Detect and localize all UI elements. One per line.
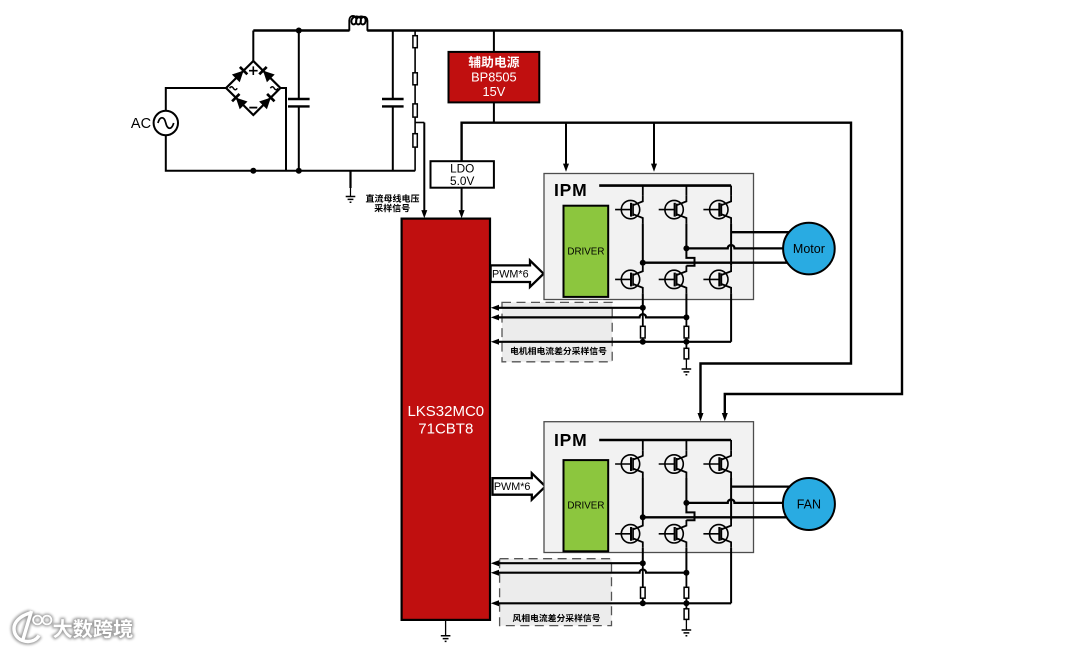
svg-text:PWM*6: PWM*6 (494, 481, 531, 493)
AC source V1 (131, 111, 178, 135)
node phase V (683, 245, 689, 251)
wire top rail to aux supply (493, 31, 495, 52)
transistor Q2 (659, 196, 687, 224)
svg-text:PWM*6: PWM*6 (492, 269, 529, 281)
transistor Q12 (659, 450, 687, 478)
wire 15V rail (462, 123, 851, 415)
capacitor C1 (298, 31, 300, 171)
shunt resistor R5 (642, 308, 644, 327)
ground symbol G3 (682, 369, 692, 375)
resistor divider chain R1-R4 (414, 31, 416, 171)
motor current sense common line (496, 341, 731, 343)
transistor Q3 (703, 196, 731, 224)
wire DC bus sense to MCU (423, 123, 425, 213)
LDO regulator U4 (431, 161, 494, 188)
wire top DC+ rail (253, 29, 902, 31)
transistor Q16 (703, 520, 731, 548)
svg-text:5.0V: 5.0V (450, 174, 474, 188)
PWM*6 block arrow to motor IPM (491, 261, 544, 287)
transistor Q15 (659, 520, 687, 548)
transistor Q5 (659, 266, 687, 294)
label fan phase current differential sampling signal (513, 614, 600, 622)
inductor L1 (349, 16, 367, 31)
wire AC bottom / DC- bottom rail (166, 135, 415, 171)
transistor Q1 (615, 196, 643, 224)
IPM module 1 (motor) (544, 174, 754, 300)
ground symbol G2 under MCU (445, 620, 447, 636)
svg-text:AC: AC (131, 116, 151, 132)
shunt resistor R6 (685, 317, 687, 326)
wire bridge + to top rail (252, 31, 254, 62)
wire aux supply to 15V rail (493, 102, 495, 122)
wire 2 col2 bottom (685, 548, 687, 573)
wire 1 col1 bottom (642, 293, 644, 307)
svg-text:BP8505: BP8505 (471, 70, 517, 85)
wire fan phase U (643, 516, 794, 518)
wire 1 col3 bottom (730, 293, 732, 341)
auxiliary power supply U3 BP8505 (449, 52, 540, 103)
svg-text:IPM: IPM (554, 430, 588, 450)
wire 2 col1 bottom (642, 548, 644, 563)
motor M1 (783, 223, 835, 275)
label DC bus voltage sampling signal (366, 194, 419, 212)
wire phase W to motor (731, 231, 794, 233)
wire bridge right leg down (280, 88, 286, 171)
wire 2 col3 bottom (730, 548, 732, 604)
wire 1 (motor) col3 top (730, 186, 732, 196)
resistor R10 to ground (685, 603, 687, 609)
IPM 1 (motor) positive bus (599, 184, 731, 187)
transistor Q14 (615, 520, 643, 548)
node phase U (640, 260, 646, 266)
node fan phase U (640, 514, 646, 520)
wire AC top to bridge (166, 88, 226, 111)
fan M2 (783, 478, 835, 530)
MCU U1 LKS32MC071CBT8 (402, 219, 490, 620)
transistor Q6 (703, 266, 731, 294)
wire 2 (fan) col3 top (730, 440, 732, 450)
wire phase V to motor (686, 245, 794, 248)
transistor Q11 (615, 450, 643, 478)
node top rail / C1 (296, 28, 302, 34)
capacitor C2 (392, 31, 394, 171)
node bottom rail / C1 (296, 168, 302, 174)
dashed box motor phase-current sense (502, 302, 612, 361)
gate driver 2 (fan) (564, 460, 609, 551)
wire 1 (motor) col2 mid (jog around phase wire) (686, 224, 694, 266)
wire 15V feed to motor IPM b (653, 123, 655, 165)
gate driver 1 (motor) (564, 206, 609, 297)
IPM module 2 (fan) (544, 422, 754, 553)
wire 1 (motor) col2 top (685, 186, 687, 196)
bridge rectifier D1 (226, 61, 280, 115)
svg-text:FAN: FAN (797, 498, 821, 512)
svg-text:71CBT8: 71CBT8 (418, 421, 473, 438)
motor current sense line V+ (496, 314, 686, 317)
wire LDO to MCU (461, 188, 463, 213)
svg-text:15V: 15V (483, 84, 506, 99)
wire 2 (fan) col3 mid (730, 478, 732, 520)
svg-text:DRIVER: DRIVER (567, 501, 604, 512)
node fan phase V (683, 500, 689, 506)
wire right outer rail to fan IPM (725, 31, 902, 415)
dashed box fan phase-current sense (500, 559, 612, 626)
wire 2 (fan) col1 top (642, 440, 644, 450)
wire 2 (fan) col2 top (685, 440, 687, 450)
PWM*6 block arrow to fan IPM (493, 473, 546, 499)
fan current sense common line (496, 602, 731, 604)
wire 1 (motor) col1 top (642, 186, 644, 196)
ground symbol G1 (349, 171, 351, 188)
resistor R7 to ground (685, 342, 687, 349)
wire 2 (fan) col1 mid (642, 478, 644, 520)
wire 1 col2 bottom (685, 293, 687, 317)
wire 15V feed to motor IPM a (565, 123, 567, 165)
transistor Q13 (703, 450, 731, 478)
watermark logo 大数跨境 (14, 611, 133, 642)
svg-text:Motor: Motor (793, 242, 825, 256)
motor current sense line U+ (496, 307, 643, 309)
shunt resistor R8 (642, 563, 644, 587)
node bottom rail / bridge (250, 168, 256, 174)
ground symbol G4 (682, 630, 692, 636)
wire fan phase V (686, 500, 794, 503)
wire fan phase W (731, 485, 794, 487)
label motor phase current differential sampling signal (511, 347, 606, 355)
fan current sense line U+ (496, 562, 643, 564)
svg-text:LKS32MC0: LKS32MC0 (407, 403, 484, 420)
transistor Q4 (615, 266, 643, 294)
shunt resistor R9 (685, 573, 687, 588)
wire 1 (motor) col3 mid (730, 224, 732, 266)
fan current sense line V+ (496, 569, 686, 572)
wire 1 (motor) col1 mid (642, 224, 644, 266)
IPM 2 (fan) positive bus (599, 439, 731, 442)
wire phase U to motor (643, 262, 794, 264)
svg-text:DRIVER: DRIVER (567, 246, 604, 257)
wire 2 (fan) col2 mid (jog around phase wire) (686, 478, 694, 520)
svg-text:IPM: IPM (554, 180, 588, 200)
